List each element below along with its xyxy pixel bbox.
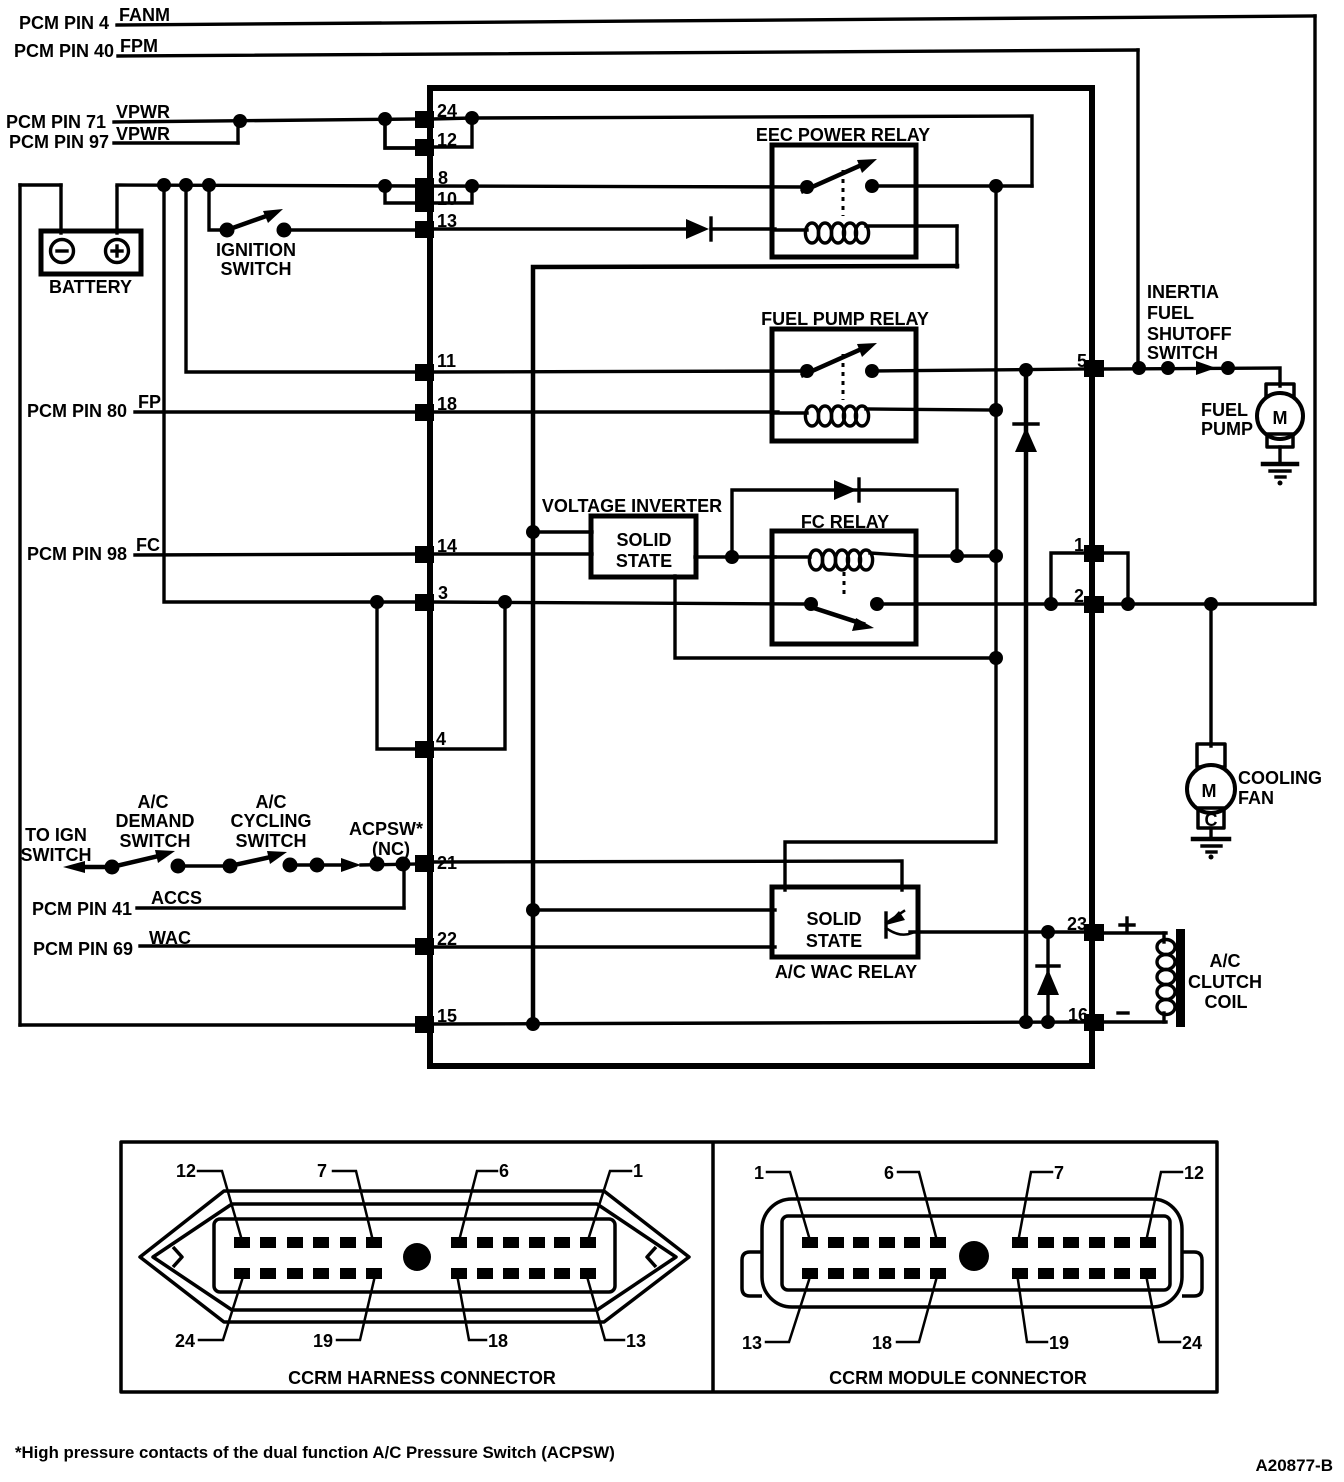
svg-text:PCM PIN 4: PCM PIN 4 — [19, 13, 109, 33]
node junction pin3 right loop — [498, 595, 512, 609]
wire inverter bottom return — [675, 576, 996, 658]
wire diode to EEC coil — [711, 227, 775, 230]
relay K3 left contact — [804, 597, 818, 611]
svg-text:SWITCH: SWITCH — [1147, 343, 1218, 363]
svg-text:PCM PIN 41: PCM PIN 41 — [32, 899, 132, 919]
CCRM harness connector shell outer — [140, 1191, 689, 1322]
wire clutch coil to pin 16 — [1104, 1020, 1166, 1023]
wire loop pin3-4 left — [377, 602, 418, 749]
ignition switch S1 left contact — [220, 223, 235, 238]
pin 1 pad — [1084, 545, 1104, 562]
battery left rail top link — [20, 183, 61, 186]
wire pin2 row outside — [1104, 602, 1315, 605]
svg-text:BATTERY: BATTERY — [49, 277, 132, 297]
relay K2 FUEL PUMP RELAY box — [772, 329, 916, 441]
relay K1 EEC POWER RELAY box — [772, 145, 916, 257]
node junction x533 WAC tap — [526, 903, 540, 917]
wire pin14 row inside — [433, 552, 592, 555]
node junction hot rail B — [179, 178, 193, 192]
svg-text:7: 7 — [317, 1161, 327, 1181]
node junction VPWR — [233, 114, 247, 128]
battery positive lead — [115, 187, 118, 233]
CCRM harness connector right notch — [647, 1247, 656, 1267]
battery BAT1 case — [41, 231, 141, 274]
node junction pin8 right loop — [465, 179, 479, 193]
CCRM module box — [430, 88, 1092, 1066]
bus vertical x996 (switched VPWR) — [785, 186, 996, 890]
cooling fan M2 top terminal — [1197, 744, 1225, 767]
svg-text:CCRM HARNESS CONNECTOR: CCRM HARNESS CONNECTOR — [288, 1368, 556, 1388]
svg-text:PUMP: PUMP — [1201, 419, 1253, 439]
wire ignition to pin 13 — [284, 228, 418, 231]
connector panel frame — [121, 1142, 1217, 1392]
bus vertical x533 (EEC coil return to pin 15) — [533, 266, 957, 1025]
node junction WAC diode tap — [1041, 925, 1055, 939]
svg-text:M: M — [1202, 781, 1217, 801]
wire K4 output to pin 23 — [910, 930, 1086, 933]
diode CR4 vertical — [1046, 932, 1049, 1022]
svg-text:CLUTCH: CLUTCH — [1188, 972, 1262, 992]
CCRM module connector center hole — [959, 1241, 989, 1271]
svg-text:A/C: A/C — [138, 792, 169, 812]
wire pin1 bracket left — [1051, 553, 1086, 604]
wire pin5 to fuel pump — [1104, 368, 1280, 386]
node junction pin8 branch — [378, 179, 392, 193]
svg-text:SOLID: SOLID — [806, 909, 861, 929]
wire ground rail to pin 15 — [20, 1023, 418, 1026]
node junction pin1 left bracket — [1044, 597, 1058, 611]
svg-text:13: 13 — [626, 1331, 646, 1351]
relay K2 coil — [776, 411, 807, 414]
wire K1 coil out to x957 — [866, 224, 957, 227]
svg-text:CYCLING: CYCLING — [231, 811, 312, 831]
svg-text:10: 10 — [437, 189, 457, 209]
CCRM harness connector shell inner — [153, 1204, 676, 1310]
node junction pin3 left loop — [370, 595, 384, 609]
svg-text:SHUTOFF: SHUTOFF — [1147, 324, 1232, 344]
transistor Q1 symbol — [884, 913, 887, 937]
harness pins top row — [234, 1237, 596, 1248]
relay K3 dashed link — [843, 572, 846, 598]
relay K2 right contact — [865, 364, 879, 378]
wire ACCS riser — [402, 864, 405, 908]
wire from ignition switch (arrow stub) — [63, 861, 85, 873]
module pins bottom row — [802, 1268, 1156, 1279]
wire inverter top input from x533 — [533, 530, 592, 533]
svg-text:12: 12 — [176, 1161, 196, 1181]
pin 5 pad — [1084, 360, 1104, 377]
wire branch down to pin 12 — [385, 119, 416, 148]
CCRM harness connector left notch — [173, 1247, 182, 1267]
wire VPWR pin71 to pin 24 — [114, 119, 418, 122]
node junction inverter output — [725, 550, 739, 564]
diode CR2 bypass path — [732, 490, 957, 557]
wire FPM vertical drop — [1136, 50, 1139, 368]
wire FC pin98 to pin 14 — [135, 554, 418, 555]
CCRM module connector right wing — [1182, 1252, 1202, 1296]
relay K1 right contact — [865, 179, 879, 193]
svg-text:FANM: FANM — [119, 5, 170, 25]
svg-text:13: 13 — [742, 1333, 762, 1353]
wire ignition switch feed — [209, 185, 227, 230]
node junction pin24 right loop — [465, 111, 479, 125]
wire pin8 row inside — [433, 186, 806, 187]
wire pin13 row inside — [433, 227, 688, 230]
pin 18 pad — [415, 404, 434, 421]
cooling fan M2 body — [1187, 765, 1235, 813]
svg-text:A/C: A/C — [1210, 951, 1241, 971]
node junction bus x533 on pin15 row — [526, 1017, 540, 1031]
harness pins bottom row — [234, 1268, 596, 1279]
svg-text:6: 6 — [884, 1163, 894, 1183]
relay K2 dashed link — [842, 354, 845, 400]
node junction FP output — [1019, 363, 1033, 377]
svg-text:SWITCH: SWITCH — [21, 845, 92, 865]
svg-text:VPWR: VPWR — [116, 102, 170, 122]
wire pin22 row inside — [433, 945, 775, 948]
wire VPWR pin97 riser — [236, 121, 239, 143]
svg-text:A20877-B: A20877-B — [1256, 1456, 1334, 1475]
svg-text:11: 11 — [437, 351, 456, 371]
node junction before ACPSW — [310, 858, 325, 873]
ground rail left vertical — [18, 185, 21, 1025]
svg-text:*High pressure contacts of the: *High pressure contacts of the dual func… — [15, 1443, 615, 1462]
node junction VPWR at FC coil — [989, 549, 1003, 563]
plus label — [1120, 923, 1134, 926]
pin 13 pad — [415, 221, 434, 238]
node junction diode return on pin16 row — [1041, 1015, 1055, 1029]
svg-text:(NC): (NC) — [372, 839, 410, 859]
node junction FPM tap — [1132, 361, 1146, 375]
pin 8 pad — [415, 178, 434, 195]
svg-text:PCM PIN 98: PCM PIN 98 — [27, 544, 127, 564]
pin 12 pad — [415, 139, 434, 156]
A/C cycling switch S4 arm — [230, 856, 275, 866]
A/C demand switch S3 arm — [112, 855, 163, 867]
relay K2 arm — [803, 347, 866, 375]
pin 23 pad — [1084, 924, 1104, 941]
A/C clutch plate bar — [1176, 929, 1185, 1027]
wire loop pin24-12 right — [433, 118, 472, 147]
wire cooling fan drop — [1209, 604, 1212, 746]
svg-text:DEMAND: DEMAND — [116, 811, 195, 831]
node junction pin1 right bracket — [1121, 597, 1135, 611]
svg-text:FUEL: FUEL — [1147, 303, 1194, 323]
battery positive terminal — [106, 240, 129, 263]
ACPSW switch S5 contacts — [370, 857, 385, 872]
svg-text:3: 3 — [438, 583, 448, 603]
wire loop pin8-10 left — [385, 186, 418, 203]
relay K3 FC RELAY box — [772, 531, 916, 644]
svg-text:STATE: STATE — [616, 551, 672, 571]
pin 16 pad — [1084, 1014, 1104, 1031]
wire hot feed down to pin 11 row — [186, 185, 418, 372]
node junction VPWR at FP coil — [989, 403, 1003, 417]
node junction VPWR at EEC output — [989, 179, 1003, 193]
svg-text:STATE: STATE — [806, 931, 862, 951]
diode CR3 on x1026 bus — [1014, 422, 1038, 425]
wire cycling to ACPSW — [290, 863, 340, 866]
svg-text:1: 1 — [754, 1163, 764, 1183]
svg-text:ACCS: ACCS — [151, 888, 202, 908]
wire loop pin24-12 left — [385, 119, 416, 148]
svg-text:CCRM MODULE CONNECTOR: CCRM MODULE CONNECTOR — [829, 1368, 1087, 1388]
relay K1 coil — [776, 228, 807, 231]
CCRM module connector pin field — [782, 1216, 1170, 1290]
svg-text:TO IGN: TO IGN — [25, 825, 87, 845]
wire K2 output to pin 5 — [872, 369, 1086, 371]
wire FPM horizontal — [118, 50, 1138, 56]
ignition switch S1 arm — [227, 214, 272, 230]
voltage inverter U1 box — [591, 516, 696, 577]
pin 21 pad — [415, 855, 434, 872]
svg-text:IGNITION: IGNITION — [216, 240, 296, 260]
wire pin21 row inside — [433, 861, 902, 890]
svg-text:PCM PIN 97: PCM PIN 97 — [9, 132, 109, 152]
fuel pump ground stem — [1278, 447, 1281, 463]
relay K4 A/C WAC RELAY box — [772, 887, 918, 957]
module pins top row — [802, 1237, 1156, 1248]
wire pin15 row inside — [433, 1022, 1086, 1024]
ACPSW switch S5 arrow — [341, 858, 361, 872]
relay K1 left contact — [800, 180, 814, 194]
pin 14 pad — [415, 546, 434, 563]
svg-text:19: 19 — [1049, 1333, 1069, 1353]
node junction cooling fan tap — [1204, 597, 1218, 611]
relay K3 coil — [776, 555, 810, 558]
connector panel divider — [711, 1142, 715, 1392]
relay K1 arm — [803, 163, 866, 191]
relay K2 left contact — [800, 364, 814, 378]
svg-text:ACPSW*: ACPSW* — [349, 819, 423, 839]
bus vertical x1026 (FP output to pin16 row) — [1024, 370, 1029, 1022]
svg-text:4: 4 — [436, 729, 446, 749]
node junction x533 inverter tap — [526, 525, 540, 539]
pin 11 pad — [415, 364, 434, 381]
wire pin3 row inside — [433, 602, 806, 604]
wire inverter output to FC coil — [695, 555, 775, 558]
cooling fan M2 bottom terminal — [1198, 808, 1224, 828]
A/C demand switch S3 left contact — [105, 860, 120, 875]
fuel pump M1 bottom terminal — [1267, 434, 1293, 447]
svg-text:6: 6 — [499, 1161, 509, 1181]
svg-text:FUEL PUMP RELAY: FUEL PUMP RELAY — [761, 309, 929, 329]
A/C cycling switch S4 left contact — [223, 859, 238, 874]
pin 10 pad — [415, 195, 434, 212]
svg-text:SWITCH: SWITCH — [221, 259, 292, 279]
A/C clutch coil L1 — [1157, 940, 1175, 955]
wire demand to cycling — [178, 864, 230, 867]
wire K2 coil out to VPWR bus — [866, 409, 996, 410]
svg-text:SWITCH: SWITCH — [120, 831, 191, 851]
ignition switch S1 right contact — [277, 223, 292, 238]
A/C cycling switch S4 right contact — [283, 858, 298, 873]
wire hot feed down to pin 3 row — [164, 185, 418, 602]
A/C clutch coil leads — [1162, 933, 1165, 942]
svg-text:SWITCH: SWITCH — [236, 831, 307, 851]
wire pin18 row inside — [433, 410, 778, 413]
wire FANM horizontal — [117, 16, 1315, 25]
node junction at pin24 branch — [378, 112, 392, 126]
pin 4 pad — [415, 741, 434, 758]
CCRM harness connector pin field — [214, 1219, 615, 1292]
pin 3 pad — [415, 594, 434, 611]
svg-text:A/C WAC RELAY: A/C WAC RELAY — [775, 962, 917, 982]
wire K3 output to pin 2 — [877, 602, 1086, 605]
CCRM module connector shell — [762, 1199, 1182, 1307]
wire ACPSW to pin 21 — [361, 864, 418, 865]
relay K1 dashed link — [842, 170, 845, 216]
wire VPWR pin97 — [114, 141, 238, 144]
wire FANM right vertical — [1313, 16, 1316, 604]
svg-text:19: 19 — [313, 1331, 333, 1351]
svg-text:VPWR: VPWR — [116, 124, 170, 144]
wire FP pin80 to pin 18 — [135, 410, 418, 413]
svg-text:FP: FP — [138, 392, 161, 412]
wire pin24 row inside — [433, 116, 1032, 186]
diode CR1 on pin13 row — [686, 219, 709, 239]
svg-text:24: 24 — [1182, 1333, 1202, 1353]
svg-text:SOLID: SOLID — [616, 530, 671, 550]
svg-text:18: 18 — [488, 1331, 508, 1351]
inertia switch S2 left contact — [1161, 361, 1175, 375]
wire loop pin3-4 right — [433, 602, 505, 749]
CCRM module connector left wing — [742, 1252, 762, 1296]
pin 24 pad — [415, 111, 434, 128]
svg-text:COOLING: COOLING — [1238, 768, 1322, 788]
wire loop pin8-10 right — [433, 186, 472, 203]
svg-text:A/C: A/C — [256, 792, 287, 812]
battery negative lead — [59, 185, 62, 233]
node junction hot rail C — [202, 178, 216, 192]
cooling fan ground stem — [1209, 828, 1212, 838]
relay K3 arm — [814, 608, 863, 624]
A/C demand switch S3 right contact — [171, 859, 186, 874]
fuel pump M1 top terminal — [1266, 384, 1294, 398]
wire ACCS pin41 — [137, 906, 404, 909]
svg-text:FC: FC — [136, 535, 160, 555]
wire K3 coil out to VPWR bus — [870, 553, 916, 556]
svg-text:M: M — [1273, 408, 1288, 428]
svg-text:1: 1 — [633, 1161, 643, 1181]
wire K1 output row — [872, 184, 1032, 187]
svg-text:VOLTAGE INVERTER: VOLTAGE INVERTER — [542, 496, 722, 516]
ground symbol (cooling fan) — [1193, 837, 1229, 842]
svg-text:7: 7 — [1054, 1163, 1064, 1183]
svg-text:COIL: COIL — [1205, 992, 1248, 1012]
pin 22 pad — [415, 938, 434, 955]
svg-text:PCM PIN 71: PCM PIN 71 — [6, 112, 106, 132]
svg-text:EEC POWER RELAY: EEC POWER RELAY — [756, 125, 930, 145]
wire battery hot feed to pin 8 — [117, 185, 418, 186]
pin 15 pad — [415, 1016, 434, 1033]
svg-text:FAN: FAN — [1238, 788, 1274, 808]
node junction VPWR at inverter return — [989, 651, 1003, 665]
wire pin1 bracket right — [1103, 553, 1128, 604]
svg-text:PCM PIN 69: PCM PIN 69 — [33, 939, 133, 959]
svg-text:18: 18 — [872, 1333, 892, 1353]
inertia switch S2 arrow — [1196, 361, 1216, 375]
inertia switch S2 right contact — [1221, 361, 1235, 375]
pin 2 pad — [1084, 596, 1104, 613]
relay K3 right contact — [870, 597, 884, 611]
ground symbol (fuel pump) — [1263, 462, 1297, 467]
wire pin11 row inside — [433, 371, 806, 372]
svg-text:FUEL: FUEL — [1201, 400, 1248, 420]
minus label — [1118, 1011, 1128, 1014]
svg-text:24: 24 — [175, 1331, 195, 1351]
svg-text:12: 12 — [1184, 1163, 1204, 1183]
CCRM harness connector center hole — [403, 1243, 431, 1271]
svg-text:PCM PIN 40: PCM PIN 40 — [14, 41, 114, 61]
node junction bus x1026 on pin16 row — [1019, 1015, 1033, 1029]
node junction bypass right on FC coil wire — [950, 549, 964, 563]
wire WAC pin69 to pin 22 — [140, 944, 418, 947]
node junction hot rail A — [157, 178, 171, 192]
svg-text:FPM: FPM — [120, 36, 158, 56]
wire x533 to WAC relay input — [533, 908, 775, 911]
wire pin23 to clutch coil — [1104, 931, 1166, 934]
fuel pump M1 body — [1257, 393, 1303, 439]
svg-text:PCM PIN 80: PCM PIN 80 — [27, 401, 127, 421]
battery negative terminal — [51, 240, 74, 263]
diode CR2 symbol — [834, 480, 857, 500]
wire K1 coil return drop — [955, 226, 958, 267]
svg-text:INERTIA: INERTIA — [1147, 282, 1219, 302]
